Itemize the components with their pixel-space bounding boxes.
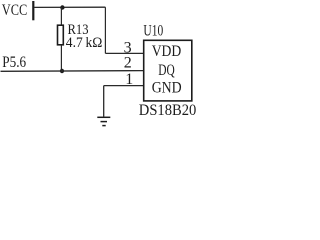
svg-text:VCC: VCC (2, 2, 27, 19)
svg-text:GND: GND (152, 79, 182, 96)
svg-text:U10: U10 (143, 22, 163, 39)
svg-text:4.7 kΩ: 4.7 kΩ (66, 35, 103, 51)
svg-text:DQ: DQ (158, 62, 175, 79)
svg-text:DS18B20: DS18B20 (139, 102, 197, 119)
junction bottom node (60, 69, 64, 73)
svg-text:VDD: VDD (152, 43, 182, 60)
svg-text:2: 2 (124, 55, 132, 72)
wire resistor bottom lead (60, 45, 62, 71)
wire DQ line P5.6 to pin 2 (1, 70, 144, 73)
wire VDD corner down (104, 7, 106, 53)
svg-text:P5.6: P5.6 (2, 54, 26, 71)
wire resistor top lead (60, 8, 62, 26)
wire pin 3 stub (105, 52, 143, 54)
IC U10 box DS18B20 (144, 40, 192, 101)
wire pin 1 stub (104, 85, 144, 87)
junction top node (60, 5, 64, 9)
resistor R13 body (58, 25, 64, 45)
power VCC bar (32, 1, 34, 20)
ground bar 2 (101, 121, 108, 123)
wire VCC rail to corner (34, 6, 105, 8)
ground bar 1 (97, 116, 110, 118)
wire ground lead down (103, 86, 105, 117)
ground bar 3 (102, 125, 105, 127)
